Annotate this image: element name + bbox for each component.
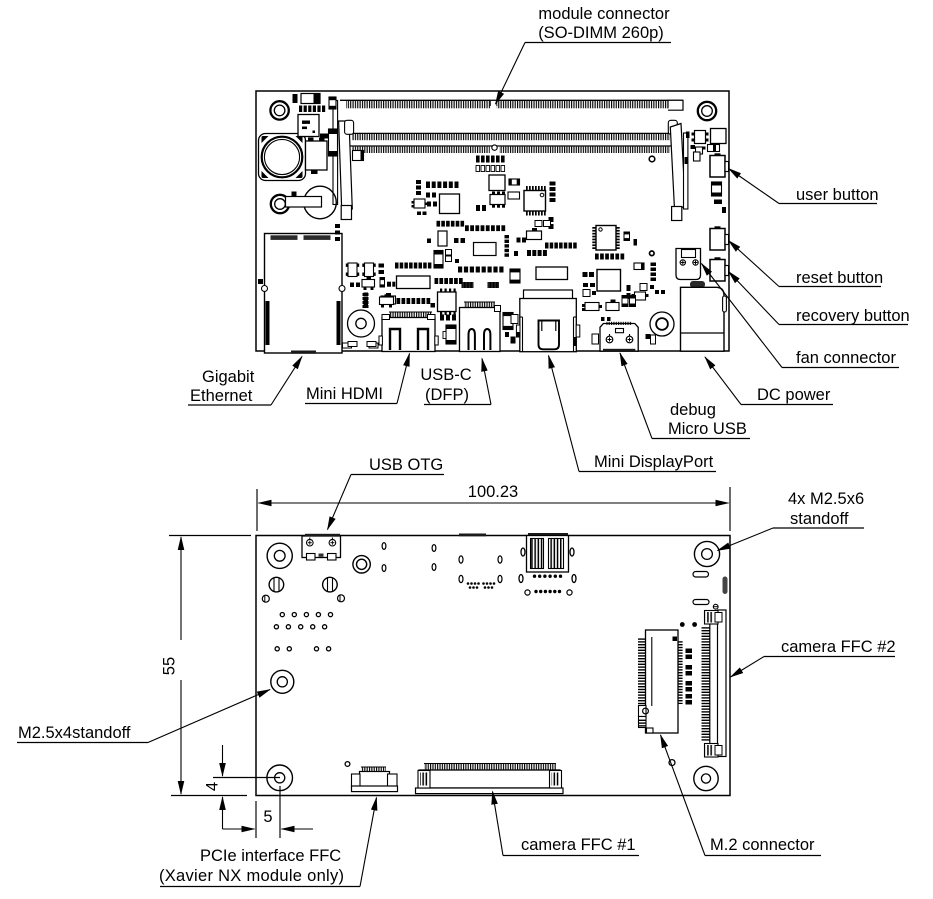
- label: reset button: [729, 241, 884, 288]
- passive cluster F (bottom strip left): [343, 289, 519, 349]
- recovery button SW3: [710, 257, 729, 281]
- svg-text:4: 4: [204, 782, 222, 791]
- label: M.2 connector: [661, 735, 822, 856]
- plated ring near OTG: [353, 556, 370, 573]
- board outline (bottom view): [256, 536, 730, 796]
- USB OTG connector (bottom view): [302, 536, 341, 560]
- passive cluster C (center): [505, 217, 577, 257]
- passive cluster A (top-center): [476, 156, 520, 212]
- svg-text:fan connector: fan connector: [796, 349, 896, 367]
- svg-text:USB OTG: USB OTG: [369, 456, 443, 474]
- svg-text:standoff: standoff: [790, 510, 849, 528]
- parts top-right corner: [685, 129, 727, 165]
- svg-text:(DFP): (DFP): [425, 386, 469, 404]
- user button SW1: [710, 153, 729, 177]
- standoff hole S4 (bottom-right): [694, 766, 718, 790]
- pill slots right side: [693, 572, 728, 605]
- label: Mini HDMI: [305, 354, 410, 404]
- Gigabit Ethernet jack J1: [262, 234, 346, 354]
- label: M2.5x4standoff: [17, 690, 270, 743]
- svg-text:reset button: reset button: [796, 269, 883, 287]
- dimension 100.23: [257, 483, 730, 531]
- label: user button: [729, 169, 879, 205]
- svg-text:Ethernet: Ethernet: [190, 387, 253, 405]
- component cluster top-left: [293, 94, 326, 113]
- M.2 connector: [638, 630, 683, 733]
- label: debug Micro USB: [620, 353, 750, 439]
- svg-text:camera FFC #2: camera FFC #2: [781, 638, 896, 656]
- svg-text:PCIe interface FFC: PCIe interface FFC: [200, 847, 341, 865]
- mounting hole H3 (top-right): [698, 102, 716, 120]
- SO-DIMM left latch: [333, 101, 364, 220]
- IC U1 top-left: [298, 115, 319, 137]
- oval pads: [382, 543, 436, 572]
- Mini DisplayPort connector J4: [516, 290, 579, 352]
- svg-text:M.2 connector: M.2 connector: [710, 836, 815, 854]
- standoff hole S3 (bottom-left): [267, 765, 293, 791]
- reset button SW2: [710, 226, 729, 250]
- label: USB OTG: [328, 456, 445, 530]
- regulator component right of C1: [306, 138, 328, 175]
- camera FFC #1 connector: [416, 764, 564, 794]
- SO-DIMM slot B upper row: [346, 133, 676, 140]
- svg-text:5: 5: [263, 808, 272, 826]
- svg-text:100.23: 100.23: [468, 483, 518, 501]
- passive cluster B (mid-left): [412, 180, 506, 231]
- svg-text:DC power: DC power: [757, 386, 831, 404]
- label: camera FFC #1: [493, 792, 640, 856]
- camera FFC #2 connector: [702, 604, 727, 757]
- board outline (top view): [256, 91, 729, 351]
- mounting hole H2 (mid-left): [271, 195, 289, 213]
- passive cluster H (right of ethernet jack): [258, 224, 395, 347]
- label: fan connector: [702, 264, 900, 368]
- IC U3 (QFN right): [592, 226, 619, 251]
- svg-text:Gigabit: Gigabit: [202, 368, 255, 386]
- standoff hole S2 (top-right): [694, 541, 719, 566]
- label: DC power: [705, 357, 833, 405]
- coin cell battery BT1: [286, 186, 337, 219]
- svg-text:module connector: module connector: [538, 5, 670, 23]
- label: PCIe interface FFC: [159, 798, 377, 887]
- svg-text:Mini DisplayPort: Mini DisplayPort: [594, 453, 714, 471]
- svg-text:Mini HDMI: Mini HDMI: [306, 385, 383, 403]
- parts near user button: [712, 182, 727, 213]
- svg-text:user button: user button: [796, 186, 879, 204]
- svg-text:Micro USB: Micro USB: [668, 420, 747, 438]
- keepout hole H4 (bottom-left): [348, 310, 375, 337]
- IC U2 (QFP center): [524, 182, 556, 216]
- svg-text:55: 55: [161, 657, 179, 675]
- keepout hole H5 (bottom-right): [650, 312, 674, 336]
- fan connector J7: [676, 249, 701, 280]
- debug Micro USB connector J5: [600, 322, 638, 352]
- SO-DIMM module connector slot A: [340, 100, 683, 110]
- svg-text:(SO-DIMM 260p): (SO-DIMM 260p): [538, 24, 664, 42]
- svg-text:debug: debug: [670, 401, 716, 419]
- dimension 4: [204, 745, 281, 829]
- svg-text:USB-C: USB-C: [420, 366, 471, 384]
- USB-C connector J3: [460, 302, 501, 352]
- svg-text:(Xavier NX module only): (Xavier NX module only): [159, 867, 344, 885]
- Mini DP footprint (bottom view): [305, 533, 576, 595]
- label: recovery button: [729, 272, 910, 326]
- svg-text:4x M2.5x6: 4x M2.5x6: [788, 490, 864, 508]
- SO-DIMM slot B lower row: [346, 145, 676, 153]
- svg-text:recovery button: recovery button: [796, 307, 910, 325]
- Mini HDMI connector J2: [379, 312, 438, 352]
- passive cluster G (right of DisplayPort): [582, 283, 665, 344]
- ring on M.2 leader: [669, 760, 675, 766]
- dots near M.2: [680, 622, 685, 627]
- label: 4x M2.5x6 standoff: [718, 490, 865, 551]
- electrolytic capacitor C1: [259, 134, 306, 181]
- PCIe interface FFC connector: [352, 767, 398, 792]
- dimension 55: [161, 536, 252, 796]
- USB-C footprint (bottom view): [459, 556, 502, 589]
- mounting hole H1 (top-left): [270, 101, 288, 119]
- standoff hole S1 (top-left): [267, 543, 292, 568]
- label: camera FFC #2: [731, 638, 896, 677]
- label: USB-C (DFP): [420, 359, 491, 405]
- SO-DIMM right latch: [668, 120, 688, 220]
- small parts left: [292, 97, 338, 197]
- svg-text:camera FFC #1: camera FFC #1: [521, 836, 636, 854]
- label: Mini DisplayPort: [549, 356, 717, 472]
- dimension 5: [223, 786, 314, 838]
- ethernet jack screw posts (bottom view): [262, 577, 344, 602]
- svg-text:M2.5x4standoff: M2.5x4standoff: [18, 724, 131, 742]
- passive cluster D (center-bottom): [395, 231, 621, 291]
- label: Gigabit Ethernet: [188, 357, 302, 406]
- via dot: [649, 156, 655, 162]
- M2.5x4 standoff hole S5 (center-left): [271, 670, 294, 693]
- passive cluster E (right-mid): [595, 232, 656, 300]
- pad pairs column: [686, 649, 693, 705]
- DC power jack J6: [681, 281, 727, 351]
- ethernet pin grid (bottom view): [274, 613, 332, 651]
- test point dot: [345, 762, 350, 767]
- label: module connector: [496, 5, 672, 104]
